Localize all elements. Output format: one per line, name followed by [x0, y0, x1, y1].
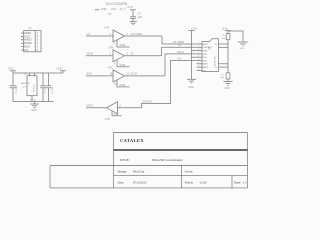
- svg-text:117-3.3: 117-3.3: [30, 99, 36, 101]
- svg-text:AMS1117: AMS1117: [32, 84, 35, 92]
- svg-text:MOSI: MOSI: [87, 52, 94, 56]
- svg-text:8: 8: [198, 66, 199, 68]
- svg-text:SCK: SCK: [87, 72, 93, 76]
- svg-text:10K: 10K: [222, 38, 226, 40]
- svg-text:U?B: U?B: [108, 45, 113, 49]
- svg-text:GND: GND: [101, 7, 107, 11]
- svg-text:TITLE:: TITLE:: [120, 158, 130, 162]
- svg-text:U?A: U?A: [104, 26, 109, 30]
- svg-text:DAT1: DAT1: [203, 66, 209, 69]
- svg-text:MICRO SD: MICRO SD: [215, 55, 217, 66]
- svg-text:DI: DI: [131, 52, 134, 56]
- svg-text:Design:: Design:: [118, 169, 127, 173]
- svg-text:Sheet:: Sheet:: [234, 181, 241, 185]
- svg-text:VDD: VDD: [203, 54, 208, 56]
- svg-text:C? 10uF: C? 10uF: [16, 85, 18, 94]
- svg-text:1/1: 1/1: [243, 181, 247, 185]
- svg-text:VSS: VSS: [203, 60, 208, 62]
- svg-text:GND: GND: [32, 110, 37, 112]
- svg-text:GND: GND: [240, 48, 245, 50]
- svg-text:VCC: VCC: [111, 7, 117, 11]
- svg-text:C?: C?: [138, 12, 142, 16]
- svg-text:CLK: CLK: [203, 57, 208, 59]
- svg-text:G4: G4: [215, 67, 218, 69]
- svg-text:GND: GND: [120, 83, 126, 87]
- svg-text:2: 2: [198, 46, 199, 48]
- svg-text:+3.3V: +3.3V: [127, 6, 134, 9]
- svg-text:P?: P?: [29, 27, 33, 31]
- svg-text:DAT2: DAT2: [203, 43, 209, 46]
- svg-text:G1: G1: [215, 44, 218, 46]
- svg-text:4: 4: [198, 52, 199, 54]
- svg-text:14: 14: [120, 7, 123, 11]
- svg-text:SCLK: SCLK: [131, 72, 138, 76]
- svg-text:CS CARD: CS CARD: [131, 32, 143, 36]
- svg-text:C? 104: C? 104: [52, 86, 54, 94]
- svg-text:Date:: Date:: [118, 181, 125, 185]
- svg-text:07/12/2013: 07/12/2013: [133, 181, 147, 185]
- svg-text:DAT0: DAT0: [203, 63, 209, 66]
- svg-text:9: 9: [198, 69, 199, 71]
- svg-text:Vision:: Vision:: [185, 181, 194, 185]
- svg-text:MicroSD Card Adapter: MicroSD Card Adapter: [152, 158, 184, 162]
- svg-text:GND: GND: [114, 114, 119, 116]
- svg-text:CD: CD: [203, 70, 207, 72]
- svg-text:6: 6: [198, 59, 199, 61]
- svg-text:DI: DI: [179, 43, 182, 47]
- svg-text:SCLK: SCLK: [177, 50, 184, 54]
- svg-text:CATALEX: CATALEX: [120, 138, 144, 143]
- svg-text:C? 106: C? 106: [45, 86, 47, 94]
- svg-text:5: 5: [198, 56, 199, 58]
- svg-text:U?C: U?C: [108, 66, 113, 70]
- svg-text:CS: CS: [24, 48, 28, 52]
- svg-text:DO: DO: [178, 56, 182, 60]
- svg-text:DAT0/DO: DAT0/DO: [143, 100, 153, 103]
- svg-text:104: 104: [138, 15, 143, 19]
- svg-text:v1.00: v1.00: [200, 181, 207, 185]
- svg-text:AMS1117: AMS1117: [21, 82, 31, 85]
- svg-text:VCC: VCC: [8, 67, 14, 71]
- svg-text:Check:: Check:: [185, 169, 194, 173]
- svg-text:Find Chu: Find Chu: [133, 169, 145, 173]
- svg-text:CS: CS: [87, 32, 91, 36]
- svg-text:74LVC125APW: 74LVC125APW: [105, 2, 127, 6]
- svg-text:U?D: U?D: [105, 117, 110, 121]
- svg-text:1: 1: [198, 42, 199, 44]
- svg-text:GND: GND: [120, 63, 126, 67]
- svg-text:MISO: MISO: [87, 104, 94, 108]
- svg-text:+3.3V: +3.3V: [56, 67, 63, 71]
- svg-text:7: 7: [198, 62, 199, 64]
- svg-text:3: 3: [198, 49, 199, 51]
- svg-text:GND: GND: [225, 88, 230, 90]
- svg-text:GND: GND: [120, 43, 126, 47]
- svg-text:GND: GND: [188, 86, 194, 89]
- svg-text:U?: U?: [108, 12, 112, 16]
- svg-text:+3.3V: +3.3V: [222, 27, 229, 30]
